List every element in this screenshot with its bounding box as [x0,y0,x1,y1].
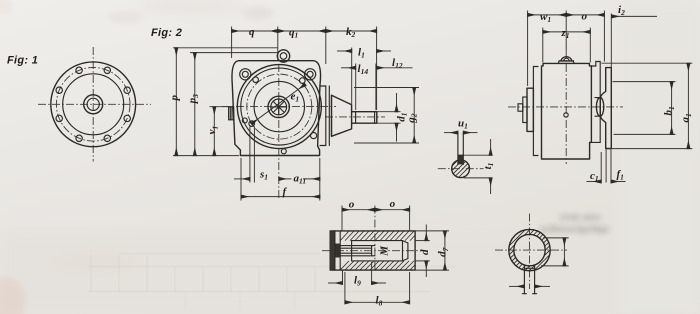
Fig2 top-right ear hole [305,69,316,80]
svg-text:q: q [249,26,255,38]
u1 shaft section circle [452,160,470,178]
dimension k2 [326,30,377,32]
dimension a11 [319,158,321,201]
dimension w1 [527,11,529,87]
base extension line [173,155,239,157]
keyway depth dimension [543,237,569,239]
dimension f [240,158,242,201]
key in keyway [458,155,463,164]
s1 extension lines from bolt hole [249,126,251,182]
extension lines q q1 k2 [231,27,233,59]
dimension o left [342,209,375,211]
dimension v1 [210,106,231,108]
dimension s1 [234,178,250,180]
Fig1 bolt circle (chain) [56,68,130,142]
svg-text:M: M [379,245,391,257]
svg-text:d: d [419,249,431,255]
retaining bolt [340,245,375,247]
Fig2 outer face circle [237,65,321,149]
dimension l12 [376,67,412,69]
dimension q1 [278,30,326,32]
dimension o (side) [566,14,604,16]
dimension l1 [351,48,353,105]
dimensions of Fig 2 [168,26,419,201]
Fig2 output bearing cone [332,95,352,136]
input shaft covers [527,88,533,131]
dimension d7 [415,230,449,232]
Fig2 input axis centerline [222,106,336,108]
Fig2 top-left ear hole [240,69,251,80]
hollow shaft nose [596,98,603,117]
clamping end cap (dark) [330,232,335,270]
dimension l8 [344,272,346,304]
dimension o-o extension lines [341,206,343,232]
output flange plate upper [600,68,611,149]
side body outline [542,63,592,159]
Fig2 right wall band [325,86,327,146]
dimension p [173,47,277,49]
Fig1 bolt holes x8 [56,67,130,141]
dimension f1 [611,181,626,183]
dimension q [232,30,278,32]
Fig2 housing outline [232,61,321,156]
svg-text:Fig: 1: Fig: 1 [7,55,38,67]
dimension d [416,240,430,242]
dimension t1 [464,154,492,156]
bore step and chamfer [402,241,404,261]
Fig1 outer flange circle [51,62,136,147]
dimension d1 [377,111,400,113]
flange plate extension lines down [605,149,607,183]
bleed-through table grid (back of page) [88,254,456,309]
Fig1 shaft hub circles [84,95,103,114]
dimension i2 [612,15,657,17]
Fig1 inner face circle [63,74,124,135]
svg-text:Fig: 2: Fig: 2 [151,27,182,39]
Fig1 horizontal centerline [38,103,151,105]
Fig2 left boss [229,107,234,120]
outer sleeve [330,231,415,270]
side left flange plate [533,67,538,156]
Fig2 boss circle [254,81,304,131]
bore circle [514,234,545,265]
sleeve hatching top [340,231,415,270]
dimension o right [375,209,410,211]
dimension a1 [602,62,693,64]
Fig2 lifting eye [277,50,289,62]
svg-text:o: o [582,11,588,23]
keyway slot [523,265,525,294]
Fig1 vertical centerline [92,47,94,162]
dimension l9 [342,270,344,284]
Fig2 output axis centerline [325,116,385,118]
side body vertical centerline [565,50,567,164]
ring hatching [505,214,556,283]
side face hole [564,113,568,117]
dimension b1 [613,81,676,83]
centerline of section [438,168,484,170]
svg-text:p: p [168,95,180,102]
dimension p3 [190,52,279,54]
detail centerline vertical [374,206,376,271]
outer circle [509,229,550,270]
dimension g2 [354,87,419,89]
side body horizontal centerline [508,106,623,108]
svg-text:o: o [390,198,396,210]
Fig2 bolt circle (chain) [247,74,312,139]
dimension c1 [587,181,602,183]
svg-text:nvm auw: nvm auw [560,211,602,223]
flange plate extension line up [610,14,612,68]
detail centerline horizontal [322,250,427,252]
dimension z1 [542,28,544,63]
Fig2 second face circle [241,68,318,145]
bore walls [352,240,403,242]
keyway width arrows [509,285,524,287]
svg-text:uvbnouJgwbqo: uvbnouJgwbqo [540,223,610,235]
dimension e1 leader [251,84,305,124]
Fig2 face bolt holes [242,77,316,154]
svg-text:o: o [349,199,355,211]
Fig2 hub circles with center cross [268,96,289,117]
detail centerlines [495,249,567,251]
Fig2 output shaft [352,112,377,124]
Fig2 vertical centerline [278,64,280,199]
side right flange plate [591,62,600,143]
dimension u1 [444,132,458,134]
dimension l14 [355,64,357,111]
side lifting eye [561,57,572,61]
